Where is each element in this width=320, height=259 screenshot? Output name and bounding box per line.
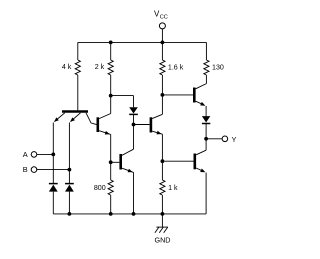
- transistor Q4 output pull-up: [194, 84, 206, 106]
- svg-text:1.6 k: 1.6 k: [168, 64, 184, 72]
- resistor R5 800: [94, 180, 113, 195]
- resistor R6 1k: [160, 180, 178, 195]
- wire rail to R4 top: [205, 42, 207, 60]
- resistor R3 1.6k: [160, 60, 184, 75]
- node 1k top / Q6 base: [161, 159, 165, 163]
- wire rail to R3 top: [161, 42, 163, 60]
- wire Q4 base from 1.6k node: [162, 94, 193, 96]
- node 2k top junction: [109, 41, 113, 45]
- wire Q5 emitter down to 1k node: [161, 134, 163, 161]
- transistor Q3 middle: [121, 149, 134, 172]
- diode D2 input clamp: [65, 184, 74, 192]
- wire R3 bottom to node: [161, 75, 163, 95]
- diode D1 input clamp: [49, 184, 58, 192]
- svg-text:2 k: 2 k: [95, 63, 105, 71]
- wire D1 anode to rail: [52, 192, 54, 214]
- wire R4 bottom to Q4 collector: [205, 75, 207, 84]
- wire 800 top: [110, 162, 112, 180]
- wire D3 branch horizontal: [111, 95, 134, 97]
- wire 1k top: [161, 161, 163, 180]
- svg-text:1 k: 1 k: [168, 184, 178, 192]
- wire input A: [37, 153, 54, 155]
- wire 1k bottom to rail: [161, 195, 163, 214]
- svg-text:B: B: [23, 165, 28, 174]
- svg-text:Y: Y: [232, 135, 237, 144]
- resistor R2 2k: [95, 60, 114, 75]
- wire Q3 base from node: [111, 161, 120, 163]
- wire D2 anode to rail: [68, 192, 70, 214]
- wire Q6 base from 1k node: [162, 160, 193, 162]
- node D3 cathode / Q5 base / Q3 collector: [132, 123, 136, 127]
- node rail GND: [161, 212, 165, 216]
- node rail D2: [68, 212, 72, 216]
- node A junction: [51, 153, 55, 157]
- wire R2 bottom to node: [110, 75, 112, 96]
- ground GND symbol: [155, 214, 171, 245]
- wire Q6 emitter down to rail: [205, 173, 207, 214]
- node B junction: [68, 168, 72, 172]
- wire D4 cathode to Y node: [205, 124, 207, 139]
- svg-text:800: 800: [94, 184, 106, 192]
- node Y: [204, 137, 208, 141]
- wire Q1 emitter2 down through B to D2: [68, 123, 70, 184]
- wire Q4 emitter to D4: [205, 106, 207, 116]
- node Q2 emitter / 800 top / Q3 base: [109, 160, 113, 164]
- node Vcc junction: [161, 41, 165, 45]
- wire Q3 collector up to D3 node: [133, 125, 135, 150]
- node rail Q3 emitter: [132, 212, 136, 216]
- svg-text:130: 130: [212, 64, 224, 72]
- resistor R1 4k: [62, 60, 81, 75]
- node 2k bottom / Q2 collector: [109, 94, 113, 98]
- transistor Q6 output pull-down: [195, 150, 206, 172]
- wire Vcc to top rail: [161, 29, 163, 43]
- transistor Q1 input multi-emitter: [54, 112, 97, 125]
- terminal B: [23, 165, 37, 174]
- svg-text:CC: CC: [160, 14, 168, 20]
- wire input B: [37, 169, 70, 171]
- diode D3: [129, 107, 138, 114]
- Vcc terminal: [154, 9, 168, 29]
- wire Y node to terminal: [206, 138, 222, 140]
- svg-text:GND: GND: [155, 236, 171, 245]
- diode D4: [202, 116, 210, 123]
- node 1.6k bottom / Q4 base: [161, 93, 165, 97]
- wire Q5 base from D3 node: [134, 124, 150, 126]
- wire D3 top: [133, 96, 135, 108]
- wire D3 cathode to node: [133, 114, 135, 124]
- svg-text:4 k: 4 k: [62, 63, 72, 71]
- wire Q2 collector up to 2k node: [110, 96, 112, 114]
- wire 800 bottom to rail: [110, 195, 112, 214]
- svg-text:A: A: [23, 150, 28, 159]
- wire Q6 collector up to Y node: [205, 139, 207, 150]
- resistor R4 130: [204, 60, 224, 75]
- wire rail to R2 top: [110, 42, 112, 60]
- wire Q3 emitter down to ground rail: [133, 172, 135, 214]
- node rail 800: [109, 212, 113, 216]
- wire Q1 emitter1 down through A to D1: [52, 123, 54, 184]
- wire rail to R1 top: [77, 42, 79, 60]
- wire R1 bottom to Q1 base: [77, 75, 79, 110]
- wire Q5 collector up to 1.6k node: [161, 95, 163, 114]
- terminal A: [23, 150, 37, 159]
- transistor Q5 darlington: [151, 114, 163, 134]
- wire Q2 emitter down to Q3 base node: [110, 134, 112, 162]
- transistor Q2 phase splitter: [98, 114, 111, 135]
- terminal Y: [222, 135, 236, 144]
- wire top rail: [78, 41, 207, 43]
- wire ground rail: [53, 213, 206, 215]
